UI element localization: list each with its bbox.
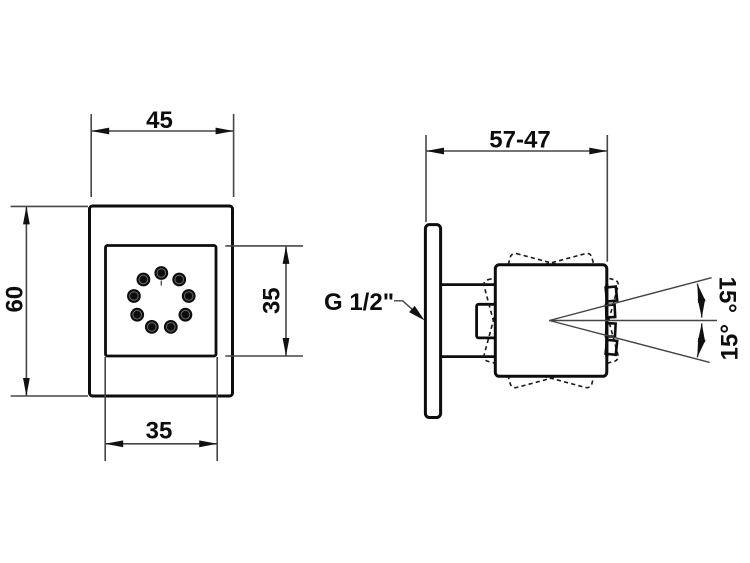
upper 15deg arc arrow	[697, 284, 705, 318]
faceplate inner square	[106, 246, 217, 357]
connector stem bottom line	[441, 355, 496, 358]
dimension 35 bottom	[105, 357, 217, 461]
dimension 60 left	[2, 206, 89, 396]
lower 15deg arc arrow	[697, 323, 705, 357]
svg-text:35: 35	[146, 418, 173, 445]
body square (side view)	[495, 265, 607, 377]
label G 1/2 inch with leader arrow	[324, 289, 425, 320]
faceplate outer square (front view)	[90, 206, 233, 396]
wall flange plate (side view)	[425, 225, 440, 418]
svg-text:60: 60	[2, 286, 29, 313]
nozzle ring (9 jets)	[127, 266, 196, 334]
svg-text:15°: 15°	[716, 324, 743, 360]
dimension 57-47	[426, 127, 607, 262]
connector stem top line	[441, 283, 496, 286]
angle lower 15deg line	[549, 321, 709, 363]
angle upper 15deg line	[549, 278, 711, 321]
angle centre line	[549, 320, 717, 322]
dimension 45 top	[91, 107, 233, 197]
spray nozzles on face	[606, 284, 618, 357]
svg-text:45: 45	[146, 107, 173, 134]
svg-text:35: 35	[259, 287, 286, 314]
svg-text:G 1/2": G 1/2"	[324, 289, 394, 316]
tilted body outline -15deg (dashed)	[483, 252, 620, 389]
svg-text:15°: 15°	[714, 277, 741, 313]
tilted body outline +15deg (dashed)	[483, 252, 620, 389]
svg-text:57-47: 57-47	[489, 127, 550, 154]
ball joint housing	[477, 304, 496, 338]
dimension 35 right	[225, 246, 303, 356]
